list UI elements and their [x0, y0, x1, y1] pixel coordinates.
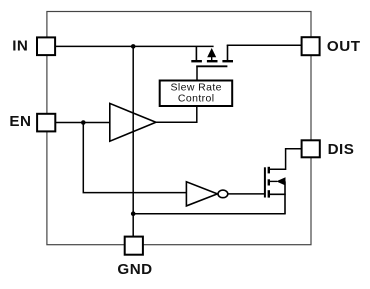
Q2 channel segment drain [268, 167, 270, 174]
wire Slew Rate Control to Q1 gate [196, 66, 198, 81]
pin GND [125, 237, 143, 255]
pin OUT [302, 37, 320, 55]
wire IN to pass FET source (net VIN) [55, 45, 214, 47]
inverter U2 [186, 182, 227, 206]
Q1 body contact bar [207, 60, 218, 62]
Q1 body arrow [207, 48, 216, 57]
transistor Q2 discharge FET [265, 149, 302, 214]
Q2 body line [269, 180, 277, 182]
wire buffer output to Slew Rate Control [156, 107, 197, 123]
Q2 channel segment source [268, 190, 270, 197]
wire VIN rail down through buffer to GND [132, 46, 134, 237]
svg-text:OUT: OUT [327, 38, 361, 55]
Q1 source terminal [195, 46, 197, 60]
svg-text:GND: GND [117, 261, 152, 278]
pin IN [37, 37, 55, 55]
pin EN [37, 114, 55, 132]
node junction on EN branch [81, 120, 86, 125]
wire EN to buffer input [55, 122, 111, 124]
Q1 gate line [196, 65, 227, 67]
Q2 body-source tie [284, 181, 286, 213]
Q2 channel segment body [268, 179, 270, 185]
op-amp U1 driver buffer [110, 103, 156, 141]
wire Q2 source to GND rail [133, 213, 286, 215]
Q1 drain terminal [227, 45, 229, 60]
Q2 drain wire to DIS [269, 149, 302, 169]
node junction on VIN rail [131, 44, 136, 49]
svg-text:DIS: DIS [328, 141, 355, 158]
svg-text:IN: IN [12, 38, 28, 55]
node junction source-to-rail [131, 211, 136, 216]
IC boundary box [47, 12, 311, 245]
Q1 source contact bar [191, 60, 202, 62]
Q1 body stem [211, 56, 213, 61]
svg-text:Control: Control [178, 92, 215, 104]
wire Q1 drain to OUT [227, 44, 302, 46]
Q1 drain contact bar [222, 60, 233, 62]
block Slew Rate Control [160, 81, 233, 107]
wire EN branch down to inverter input [83, 123, 187, 193]
transistor Q1 pass FET [191, 45, 233, 66]
Q2 gate bar [264, 167, 266, 197]
wire inverter output to Q2 gate [228, 193, 266, 195]
Q2 source line [269, 193, 286, 195]
Q2 body arrow [276, 177, 285, 185]
svg-text:EN: EN [9, 113, 31, 130]
pin DIS [302, 140, 320, 157]
